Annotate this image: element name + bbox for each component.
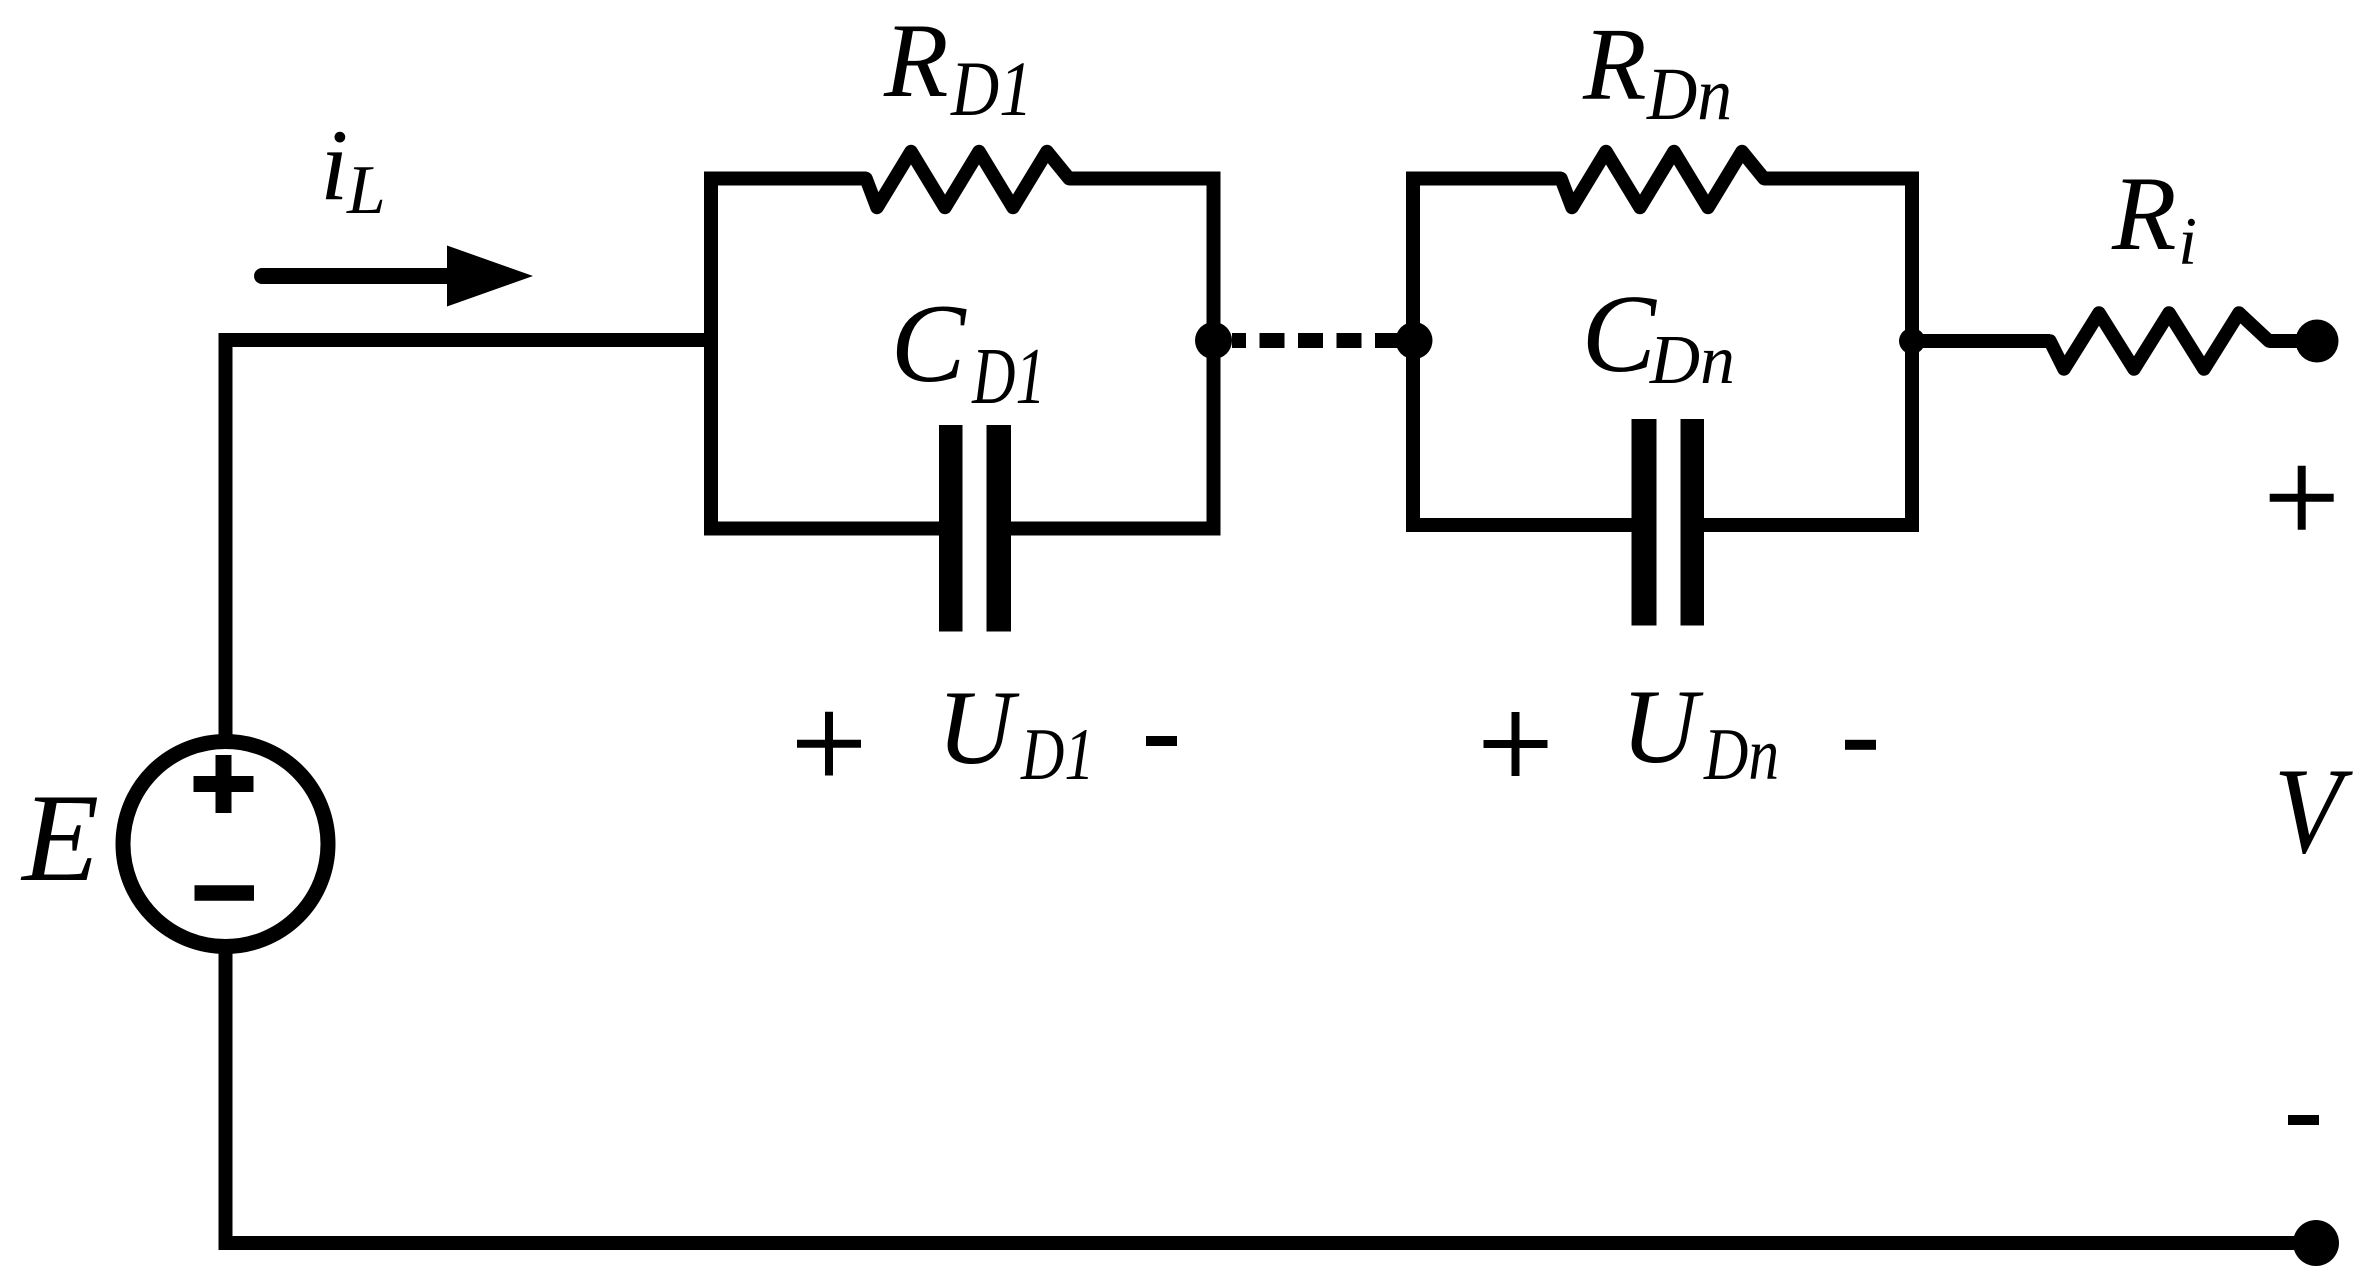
svg-text:U: U [937, 668, 1020, 786]
svg-text:Dn: Dn [1649, 322, 1735, 399]
svg-text:U: U [1621, 667, 1704, 785]
svg-text:R: R [1582, 6, 1647, 122]
svg-text:R: R [2111, 155, 2177, 272]
svg-text:C: C [891, 282, 967, 406]
svg-text:i: i [320, 109, 348, 221]
svg-text:V: V [2274, 742, 2353, 879]
svg-text:D1: D1 [950, 45, 1032, 132]
svg-text:i: i [2178, 204, 2197, 279]
svg-text:Dn: Dn [1646, 53, 1732, 136]
svg-text:C: C [1582, 273, 1658, 396]
svg-text:R: R [883, 2, 949, 119]
svg-text:L: L [346, 152, 386, 229]
svg-text:D1: D1 [971, 333, 1045, 421]
svg-text:Dn: Dn [1703, 714, 1779, 796]
svg-text:D1: D1 [1020, 714, 1094, 796]
svg-text:E: E [20, 769, 99, 908]
